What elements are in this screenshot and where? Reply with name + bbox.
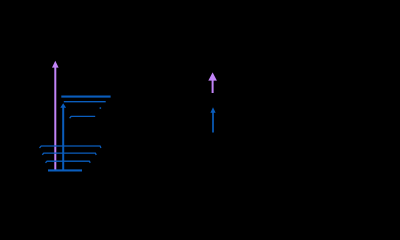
energy level: upper excited state [64, 101, 106, 103]
ionization arrow (purple, large, left diagram) [52, 61, 59, 170]
energy level: first excited state [70, 116, 96, 118]
stray dot node [100, 107, 102, 109]
energy level: ionization limit (thick top line) [61, 96, 110, 98]
excitation arrow (blue, large, left diagram) [60, 103, 66, 170]
energy level: ground state (thick bottom line) [48, 169, 82, 171]
photon arrow (blue, small, right) [210, 107, 215, 132]
energy level: n=2 [46, 161, 91, 163]
energy level: n=3 [42, 153, 96, 155]
energy level: n=4 (widest lower level) [40, 146, 101, 148]
photon arrow (purple, small, right) [208, 72, 217, 93]
